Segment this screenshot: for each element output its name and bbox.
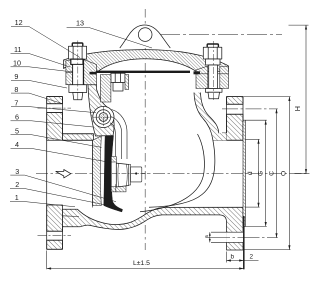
svg-text:12: 12 xyxy=(15,18,23,27)
seat ring xyxy=(93,136,102,206)
dimension C xyxy=(275,109,277,238)
leader 12 xyxy=(11,27,80,58)
dimension a (bolt hole) xyxy=(209,232,211,242)
svg-text:d: d xyxy=(247,171,254,175)
chamber right wall curve xyxy=(149,93,215,208)
svg-text:11: 11 xyxy=(14,45,21,54)
right flange bottom bolt hole xyxy=(226,232,243,242)
leader 8 xyxy=(11,93,62,103)
horizontal centerline xyxy=(36,173,310,175)
left flange bottom section xyxy=(47,205,63,249)
cover lifting lug xyxy=(120,25,171,48)
leader 4 xyxy=(11,148,106,161)
vertical centerline xyxy=(144,9,146,250)
disc stud washer xyxy=(111,157,116,192)
svg-text:9: 9 xyxy=(14,72,18,81)
disc xyxy=(104,133,123,212)
dimension d xyxy=(245,139,259,207)
lug hole centerline xyxy=(131,34,282,36)
cover flange column left inner xyxy=(84,60,97,85)
hinge bracket stud under cover xyxy=(101,73,129,102)
dimension O xyxy=(244,97,291,250)
outlet hub top wall xyxy=(213,133,243,140)
svg-text:7: 7 xyxy=(14,98,18,107)
svg-text:10: 10 xyxy=(13,59,21,68)
hinge pin xyxy=(96,110,110,124)
svg-text:G: G xyxy=(258,171,265,176)
leader 13 xyxy=(67,27,152,48)
svg-text:2: 2 xyxy=(250,254,254,261)
left flange top section xyxy=(47,97,63,141)
gasket left xyxy=(90,72,97,75)
hinge boss xyxy=(93,106,114,127)
cover flange column right inner xyxy=(196,66,208,89)
right flange bolt hole centerline top xyxy=(222,108,278,110)
disc nut xyxy=(112,163,148,187)
callout texts xyxy=(13,18,302,267)
svg-text:O: O xyxy=(281,171,288,176)
arm hub lower block xyxy=(116,184,126,192)
svg-text:1: 1 xyxy=(15,193,19,202)
svg-text:2: 2 xyxy=(15,180,19,189)
bonnet joint line right xyxy=(200,73,208,75)
cover flange column left outer xyxy=(66,61,73,85)
leader 11 xyxy=(11,54,71,68)
seat counterbore face xyxy=(92,140,94,207)
leader 3 xyxy=(10,175,116,202)
bonnet joint line left xyxy=(66,72,73,74)
lug hole xyxy=(138,28,152,42)
swing arm xyxy=(112,110,128,160)
svg-text:5: 5 xyxy=(15,126,19,135)
leader 1 xyxy=(10,202,75,207)
svg-text:8: 8 xyxy=(14,85,18,94)
svg-text:H: H xyxy=(293,106,302,111)
cover flange column right outer xyxy=(220,67,229,89)
svg-text:4: 4 xyxy=(15,140,19,149)
bolt right xyxy=(203,41,222,100)
dimension b and 2 xyxy=(227,252,259,263)
inlet hub top wall xyxy=(63,134,95,141)
dimension L xyxy=(47,216,244,270)
right neck S-wall xyxy=(194,93,227,141)
dimension G xyxy=(245,120,266,226)
leader 10 xyxy=(11,67,74,72)
svg-text:3: 3 xyxy=(15,167,19,176)
right flange top part xyxy=(227,97,244,141)
body bottom wall and right flange lower part xyxy=(63,207,244,250)
leader 7 xyxy=(11,107,96,113)
raised face right xyxy=(243,120,245,226)
bolt left xyxy=(69,41,87,102)
svg-text:13: 13 xyxy=(76,19,84,28)
leader 2 xyxy=(10,188,104,204)
bonnet cover shell xyxy=(64,50,229,73)
left flange bolt hole centerline top xyxy=(38,107,72,109)
svg-text:a: a xyxy=(204,235,210,238)
left flange bolt hole centerline bottom xyxy=(38,235,72,237)
svg-text:L±1.5: L±1.5 xyxy=(133,260,150,267)
leader 6 xyxy=(11,121,94,127)
right flange bolt hole centerline bottom xyxy=(208,237,278,239)
flow arrow xyxy=(56,170,71,178)
dimension H line xyxy=(289,25,310,173)
svg-text:b: b xyxy=(231,254,235,261)
body neck above hinge xyxy=(88,85,114,136)
svg-text:6: 6 xyxy=(15,113,19,122)
cover seat edge (thick) xyxy=(96,71,190,73)
gasket right xyxy=(194,71,201,74)
left flange silhouette edge across bore xyxy=(46,140,48,205)
leader 9 xyxy=(11,80,67,88)
outlet opening edge curve xyxy=(140,134,204,212)
leader 5 xyxy=(11,135,102,148)
svg-text:C: C xyxy=(268,171,275,176)
